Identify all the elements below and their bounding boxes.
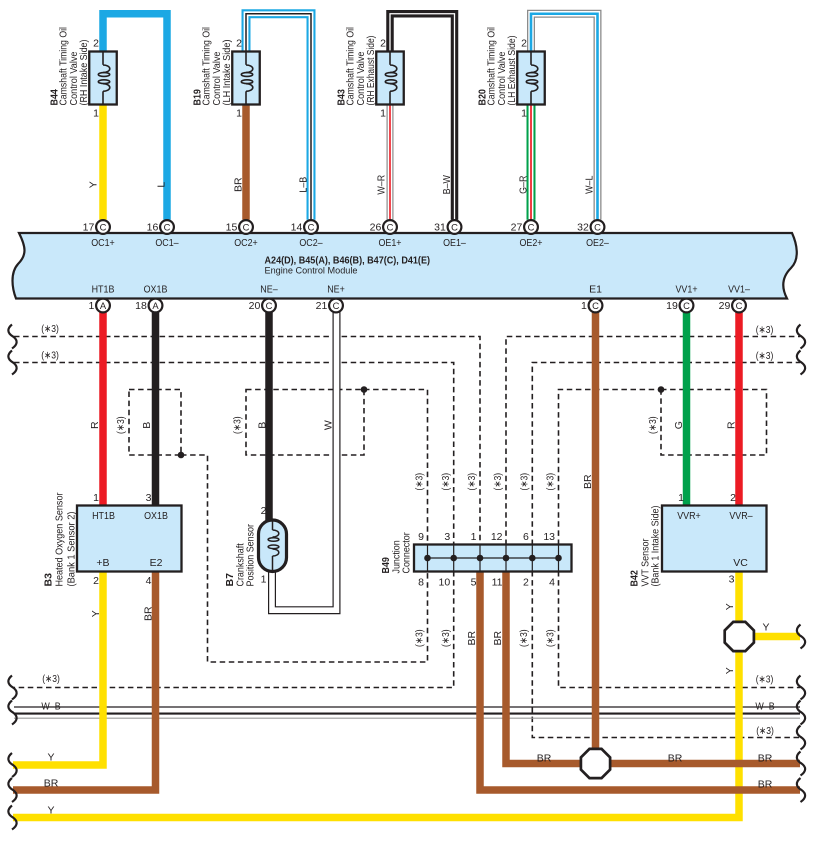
svg-text:(RH Intake Side): (RH Intake Side) [78,40,90,106]
break symbols left edge [8,325,16,349]
svg-text:31: 31 [434,222,446,234]
svg-text:R: R [89,421,101,429]
svg-text:(∗3): (∗3) [115,416,127,434]
svg-text:2: 2 [380,38,386,50]
svg-text:(Bank 1 Sensor 2): (Bank 1 Sensor 2) [65,512,77,587]
splice octagon BR E1 [581,749,610,778]
ECM top pin 32 OE2– [591,220,605,234]
svg-text:C: C [387,221,394,232]
svg-text:(LH Exhaust Side): (LH Exhaust Side) [506,36,518,106]
svg-text:A: A [100,300,107,311]
svg-text:1: 1 [678,492,684,504]
ECM bottom pin 20 NE– [262,299,276,313]
svg-text:Position Sensor: Position Sensor [245,524,257,587]
svg-text:BR: BR [537,753,552,765]
svg-text:27: 27 [511,222,523,234]
wire R ECM 29 VV1- to B42 pin2 [735,312,743,510]
svg-text:NE–: NE– [260,284,278,296]
svg-text:12: 12 [491,531,503,543]
VVT sensor B42 [662,506,767,572]
svg-text:C: C [266,300,273,311]
svg-text:Heated Oxygen Sensor: Heated Oxygen Sensor [53,492,65,586]
ECM bottom pin 1 HT1B [96,299,110,313]
svg-text:C: C [592,300,599,311]
svg-text:W–R: W–R [376,174,388,194]
svg-text:2: 2 [523,577,529,589]
svg-text:W–B: W–B [41,701,60,713]
svg-text:C: C [164,221,171,232]
shield node NE [361,386,368,393]
svg-text:(∗3): (∗3) [232,416,244,434]
svg-text:Y: Y [47,805,54,817]
splice octagon Y VC [725,622,754,651]
ECM bottom pin 21 NE+ [329,299,343,313]
svg-text:HT1B: HT1B [92,510,115,522]
svg-text:1: 1 [261,574,267,586]
ECM top pin 14 OC2– [304,220,318,234]
svg-text:VVR+: VVR+ [677,510,701,522]
svg-text:17: 17 [83,222,95,234]
svg-text:16: 16 [147,222,159,234]
svg-text:2: 2 [236,38,242,50]
wire B-W B43 pin2 to ECM 31 OE1- [390,14,455,220]
svg-text:1: 1 [581,300,587,312]
svg-text:2: 2 [93,575,99,587]
svg-text:(∗3): (∗3) [41,350,59,362]
ECM bottom pin 29 VV1– [732,299,746,313]
ECM bottom pin 19 VV1+ [680,299,694,313]
junction node B49 x=453.7 [450,555,457,562]
svg-text:VVR–: VVR– [729,510,752,522]
svg-text:(∗3): (∗3) [756,350,774,362]
crankshaft position sensor B7 [259,520,287,572]
svg-text:Y: Y [762,622,769,634]
svg-text:OE1+: OE1+ [378,237,401,249]
svg-text:VV1+: VV1+ [675,284,697,296]
svg-text:Y: Y [724,603,736,610]
svg-text:OE1–: OE1– [443,237,466,249]
junction connector B49 [414,545,572,572]
ECM bottom pin 1 E1 [589,299,603,313]
junction node B49 x=558.5 [555,555,562,562]
shield line B49 pin 4 to right [559,571,801,688]
shield line (*3) B49 pin 6 to right [532,363,800,546]
wire BR B3 E2 to left [13,567,156,790]
svg-text:8: 8 [418,577,424,589]
svg-text:OC2–: OC2– [299,237,322,249]
svg-text:A: A [152,300,159,311]
svg-text:Y: Y [47,752,54,764]
svg-text:W–L: W–L [584,175,596,194]
svg-text:BR: BR [466,630,478,645]
svg-text:OX1B: OX1B [144,510,168,522]
svg-text:(∗3): (∗3) [518,629,530,647]
svg-text:2: 2 [730,492,736,504]
shield drain OX1B node to B49 pin 8 [181,455,428,662]
shield line (*3) left to B49 pin 1 [14,337,480,546]
camshaft timing oil control valve B44 [89,52,117,105]
svg-text:Connector: Connector [401,532,413,574]
ECM top pin 31 OE1– [448,220,462,234]
wire Y B42 VC to splice [735,567,743,628]
svg-text:13: 13 [543,531,555,543]
svg-text:1: 1 [521,108,527,120]
svg-text:Y: Y [724,667,736,674]
wire BR B19 pin1 to ECM 15 OC2+ [242,100,250,220]
svg-text:G: G [673,421,685,429]
svg-text:OC1–: OC1– [155,237,178,249]
svg-text:10: 10 [439,577,451,589]
svg-text:(∗3): (∗3) [756,725,774,737]
svg-text:(∗3): (∗3) [545,629,557,647]
svg-text:(∗3): (∗3) [466,473,478,491]
shield line (*3) B49 pin 12 to right [506,337,800,546]
svg-text:(∗3): (∗3) [518,473,530,491]
svg-text:19: 19 [666,300,678,312]
junction node B49 x=532.3 [529,555,536,562]
svg-text:1: 1 [93,108,99,120]
shield box around OX1B wire [129,390,181,456]
svg-text:1: 1 [236,108,242,120]
svg-text:BR: BR [668,753,683,765]
svg-text:C: C [736,300,743,311]
wire W-L B20 pin2 to ECM 32 OE2- [531,14,598,220]
svg-text:OE2–: OE2– [586,237,609,249]
svg-text:(∗3): (∗3) [545,473,557,491]
wire W-R B43 pin1 to ECM 26 OE1+ [387,100,394,220]
svg-text:26: 26 [370,222,382,234]
wire L B44 pin2 to ECM 16 OC1- [103,14,167,220]
svg-text:29: 29 [719,300,731,312]
svg-text:B: B [141,422,153,429]
wire R ECM 1 HT1B to B3 pin1 [99,312,107,510]
svg-text:5: 5 [471,577,477,589]
svg-text:G–R: G–R [518,175,530,194]
shield box around VVR+ / VVR- wires [661,390,767,456]
wire B ECM 18 OX1B to B3 pin3 [152,312,160,510]
heated oxygen sensor B3 [77,506,182,572]
junction node B49 x=480 [477,555,484,562]
shield node VVT [658,386,665,393]
svg-text:1: 1 [88,300,94,312]
svg-text:B–W: B–W [441,175,453,194]
svg-text:Engine Control Module: Engine Control Module [265,266,358,277]
svg-text:4: 4 [146,575,152,587]
wire Y splice down and across bottom [13,645,739,818]
wire BR B49 pin11 to right through splice [506,567,800,764]
svg-text:2: 2 [521,38,527,50]
svg-text:2: 2 [261,505,267,517]
svg-text:9: 9 [418,531,424,543]
ECM module A24(D) B45(A) B46(B) B47(C) D41(E) [13,233,797,299]
svg-text:3: 3 [729,574,735,586]
camshaft timing oil control valve B20 [517,52,545,105]
ECM top pin 26 OE1+ [383,220,397,234]
svg-text:(Bank 1 Intake Side): (Bank 1 Intake Side) [650,506,662,587]
wire L-B B19 pin2 to ECM 14 OC2- [246,14,311,220]
wire W ECM 21 NE+ to B7 pin1 [272,312,337,610]
svg-text:14: 14 [291,222,303,234]
break symbols right edge [797,325,805,349]
svg-text:OC2+: OC2+ [234,237,258,249]
svg-text:2: 2 [93,38,99,50]
shield node OX1B [178,452,185,459]
svg-text:L–B: L–B [298,177,310,193]
ECM top pin 27 OE2+ [524,220,538,234]
svg-text:BR: BR [758,779,773,791]
ECM top pin 17 OC1+ [96,220,110,234]
shield line B49 pin 13 to VVT shield node [559,390,662,546]
svg-text:C: C [243,221,250,232]
ECM bottom pin 18 OX1B [149,299,163,313]
svg-text:15: 15 [226,222,238,234]
ECM top pin 16 OC1– [160,220,174,234]
wire B ECM 20 NE- to B7 pin2 [265,312,273,524]
svg-text:Y: Y [90,610,102,617]
svg-text:4: 4 [549,577,555,589]
svg-text:3: 3 [146,492,152,504]
wire Y B3 +B to left [13,567,103,765]
junction node B49 x=427.5 [424,555,431,562]
junction node B49 x=506 [503,555,510,562]
shield box around NE- / NE+ wires [246,390,364,456]
svg-text:(∗3): (∗3) [41,323,59,335]
shield line B49 pin 10 to left [14,571,454,688]
svg-text:1: 1 [380,108,386,120]
svg-text:OX1B: OX1B [144,284,168,296]
svg-text:OE2+: OE2+ [519,237,542,249]
svg-text:(LH Intake Side): (LH Intake Side) [221,40,233,106]
svg-text:VV1–: VV1– [728,284,750,296]
svg-text:(∗3): (∗3) [647,416,659,434]
wire G ECM 19 VV1+ to B42 pin1 [683,312,691,510]
svg-text:18: 18 [135,300,147,312]
svg-text:NE+: NE+ [327,284,345,296]
svg-text:BR: BR [233,177,245,192]
wire BR B49 pin5 to right [480,567,800,790]
svg-text:3: 3 [444,531,450,543]
svg-text:C: C [100,221,107,232]
svg-text:W–B: W–B [755,701,774,713]
svg-text:C: C [528,221,535,232]
svg-text:(∗3): (∗3) [414,473,426,491]
svg-text:BR: BR [44,778,59,790]
svg-text:E2: E2 [150,557,163,569]
svg-text:1: 1 [93,492,99,504]
svg-text:C: C [333,300,340,311]
svg-text:(∗3): (∗3) [440,629,452,647]
svg-text:C: C [683,300,690,311]
svg-text:VC: VC [733,557,748,569]
svg-text:20: 20 [249,300,261,312]
svg-text:+B: +B [96,557,109,569]
wire Y splice to right [750,633,800,641]
svg-text:(∗3): (∗3) [42,673,60,685]
wire G-R B20 pin1 to ECM 27 OE2+ [527,100,536,220]
svg-text:21: 21 [316,300,328,312]
svg-text:(∗3): (∗3) [756,674,774,686]
svg-text:(∗3): (∗3) [414,629,426,647]
wire BR ECM 1 E1 to splice [592,312,600,764]
svg-text:E1: E1 [589,284,602,296]
svg-text:W: W [323,420,335,430]
svg-text:(RH Exhaust Side): (RH Exhaust Side) [365,36,377,106]
svg-text:OC1+: OC1+ [91,237,115,249]
camshaft timing oil control valve B43 [376,52,404,105]
svg-text:6: 6 [523,531,529,543]
svg-text:(∗3): (∗3) [756,324,774,336]
shield line B49 pin 2 to right [532,571,800,738]
svg-text:R: R [726,421,738,429]
svg-text:11: 11 [492,577,503,589]
svg-text:C: C [308,221,315,232]
svg-text:32: 32 [577,222,589,234]
svg-text:L: L [156,182,168,188]
svg-text:(∗3): (∗3) [440,473,452,491]
shield line NE node to B49 pin 9 [364,390,428,546]
svg-text:Y: Y [88,181,100,188]
svg-text:HT1B: HT1B [92,284,115,296]
svg-text:BR: BR [758,753,773,765]
shield line (*3) left to B49 pin 3 [14,363,454,546]
svg-text:BR: BR [582,474,594,489]
svg-text:BR: BR [492,630,504,645]
wire W-B horizontal [14,706,800,708]
camshaft timing oil control valve B19 [232,52,260,105]
wire Y B44 pin1 to ECM 17 OC1+ [99,100,107,220]
svg-text:1: 1 [471,531,477,543]
svg-text:(∗3): (∗3) [492,473,504,491]
svg-text:B: B [257,422,269,429]
svg-text:C: C [451,221,458,232]
svg-text:C: C [594,221,601,232]
ECM top pin 15 OC2+ [239,220,253,234]
svg-text:BR: BR [143,606,155,621]
